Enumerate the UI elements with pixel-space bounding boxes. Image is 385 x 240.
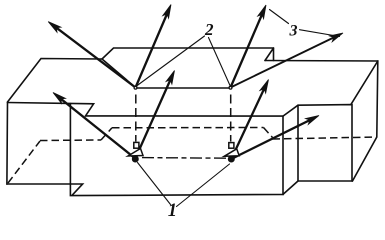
- svg-text:2: 2: [204, 20, 214, 39]
- svg-text:3: 3: [289, 23, 298, 40]
- svg-text:1: 1: [168, 201, 177, 220]
